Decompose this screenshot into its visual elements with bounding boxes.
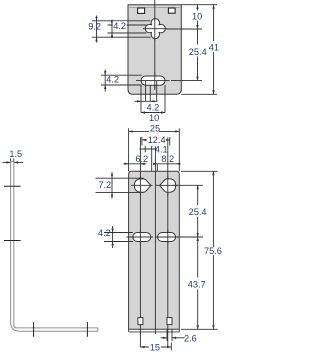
- svg-text:4.2: 4.2: [113, 21, 126, 31]
- svg-text:43.7: 43.7: [188, 279, 206, 289]
- svg-text:6.2: 6.2: [135, 154, 148, 164]
- svg-text:4.2: 4.2: [147, 103, 160, 113]
- svg-text:7.2: 7.2: [98, 180, 111, 190]
- svg-text:4.2: 4.2: [98, 228, 111, 238]
- svg-text:10: 10: [192, 12, 202, 22]
- svg-text:1.5: 1.5: [9, 149, 22, 159]
- svg-text:25.4: 25.4: [189, 207, 207, 217]
- svg-text:8.2: 8.2: [161, 154, 174, 164]
- svg-text:2.6: 2.6: [184, 333, 197, 343]
- svg-text:9.2: 9.2: [88, 21, 101, 31]
- svg-text:41: 41: [209, 43, 219, 53]
- svg-text:4.2: 4.2: [106, 74, 119, 84]
- svg-text:10: 10: [149, 113, 159, 123]
- svg-text:15: 15: [150, 343, 160, 353]
- svg-text:25.4: 25.4: [189, 47, 207, 57]
- svg-text:25: 25: [150, 124, 160, 134]
- svg-text:75.6: 75.6: [204, 246, 222, 256]
